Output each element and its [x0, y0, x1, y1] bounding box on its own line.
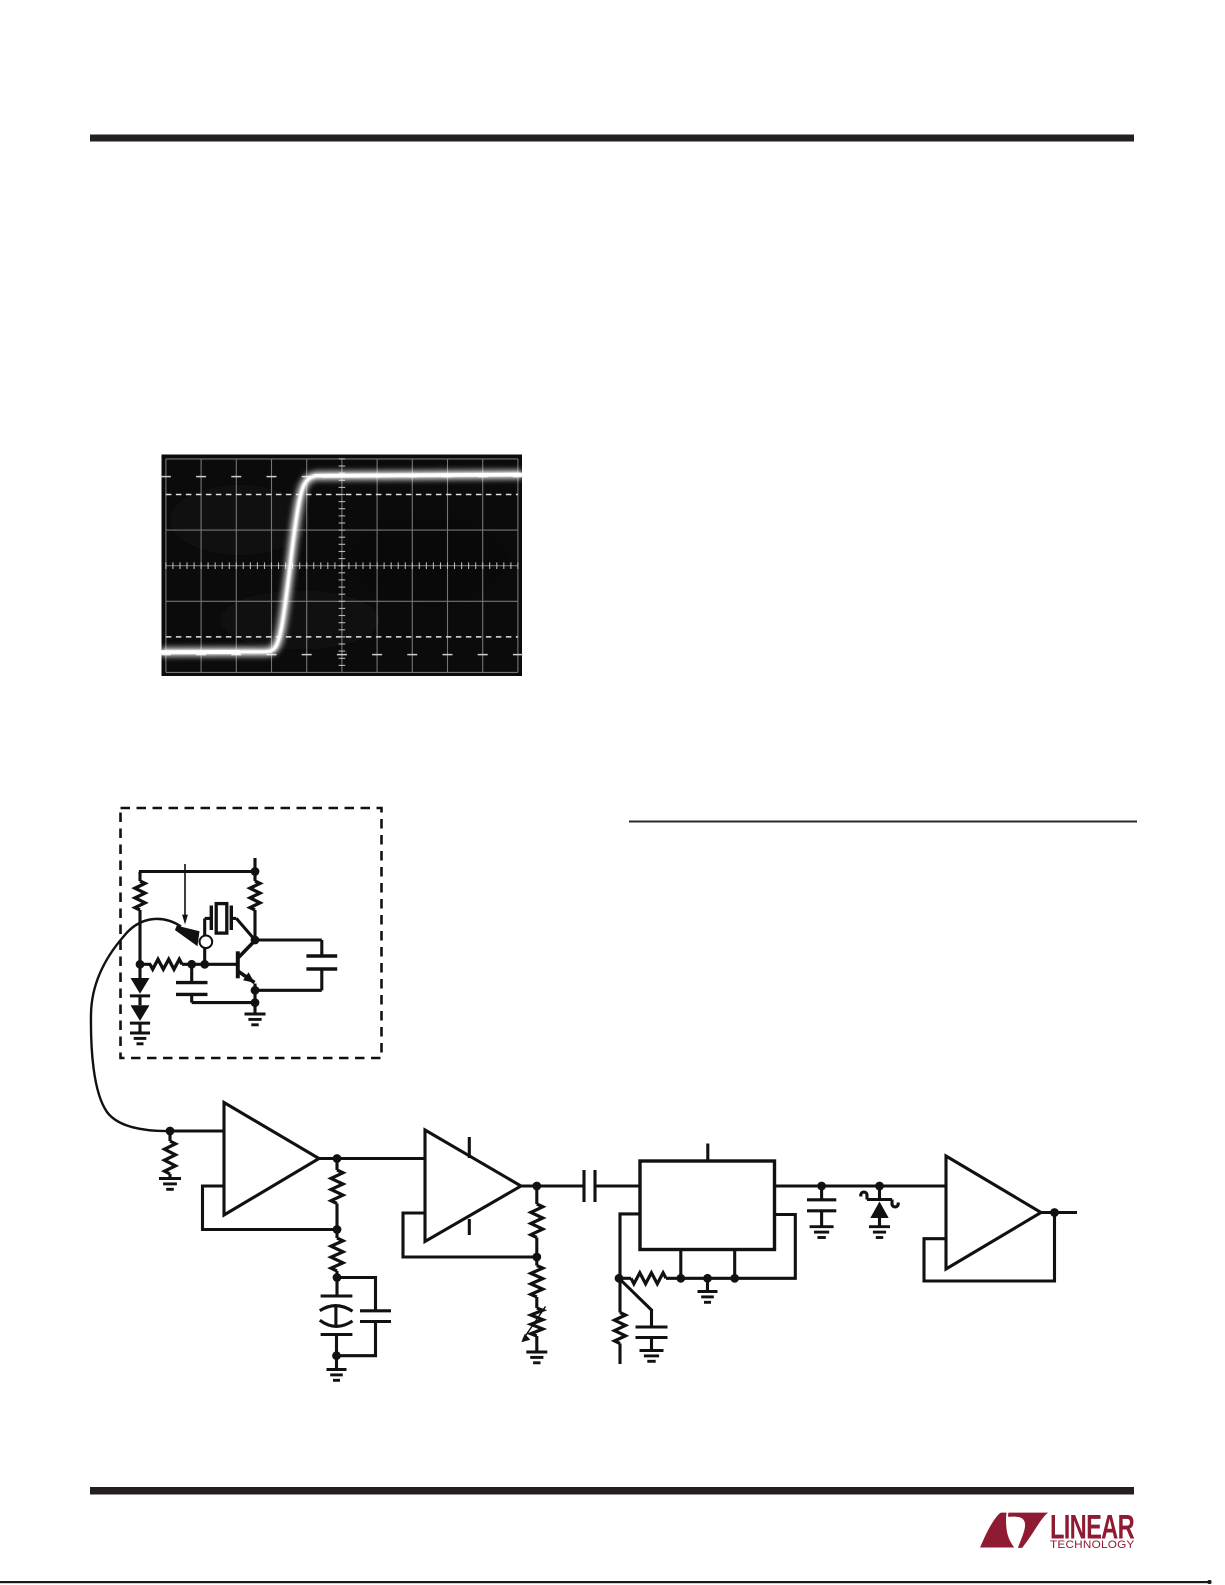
- svg-text:TECHNOLOGY: TECHNOLOGY: [1050, 1539, 1135, 1551]
